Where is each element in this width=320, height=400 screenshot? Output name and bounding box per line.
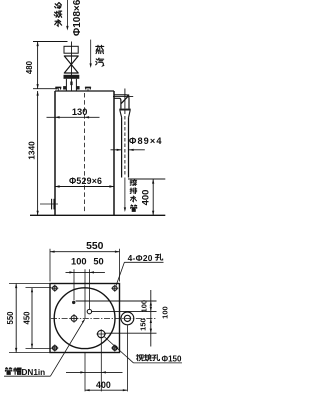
svg-text:550: 550 xyxy=(6,311,15,325)
svg-text:550: 550 xyxy=(86,241,104,252)
svg-text:100: 100 xyxy=(161,306,170,319)
svg-text:Φ150: Φ150 xyxy=(162,354,182,363)
svg-text:Φ529×6: Φ529×6 xyxy=(69,176,102,186)
svg-text:1340: 1340 xyxy=(27,141,37,160)
svg-text:130: 130 xyxy=(72,107,88,117)
svg-text:400: 400 xyxy=(96,380,111,390)
svg-text:400: 400 xyxy=(140,190,151,206)
svg-text:4-Φ20: 4-Φ20 xyxy=(128,253,153,263)
svg-text:450: 450 xyxy=(22,311,31,325)
svg-text:100: 100 xyxy=(139,300,148,313)
svg-text:Φ89×4: Φ89×4 xyxy=(129,136,163,146)
svg-text:480: 480 xyxy=(25,60,34,74)
svg-text:100: 100 xyxy=(71,256,87,266)
svg-text:Φ108×6: Φ108×6 xyxy=(72,0,83,36)
svg-text:150: 150 xyxy=(139,318,148,331)
svg-text:50: 50 xyxy=(93,256,103,266)
